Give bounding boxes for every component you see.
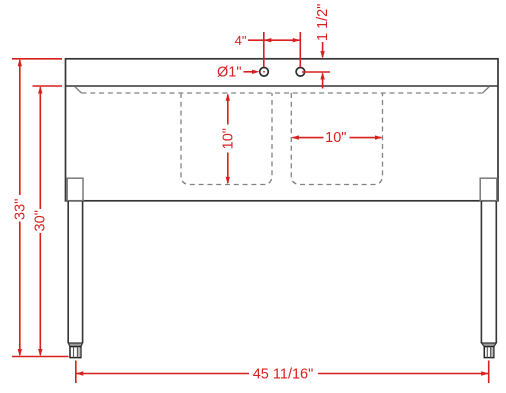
svg-text:30": 30" (33, 210, 49, 231)
dimension 30" extension line top (33, 85, 63, 87)
sink body outline (66, 59, 499, 201)
svg-text:10": 10" (325, 130, 346, 146)
dimension 30" line (38, 86, 42, 357)
left leg (68, 201, 82, 343)
rim chamfer right (483, 87, 490, 93)
right bowl 10" dimension line (291, 135, 382, 139)
left foot (70, 347, 81, 358)
faucet hole 1 (260, 68, 269, 77)
svg-text:1 1/2": 1 1/2" (315, 4, 331, 41)
bottom dimension 45 11/16" extension left (75, 361, 77, 384)
hole-center extension line (302, 71, 330, 73)
svg-text:Ø1": Ø1" (217, 64, 242, 80)
right foot (484, 347, 494, 358)
dimension 33" extension line top (12, 58, 62, 60)
left bowl (dashed) (181, 93, 272, 185)
svg-text:4": 4" (235, 33, 247, 48)
dimension 33"/30" extension line bottom (12, 356, 69, 358)
left leg gusset bracket (67, 178, 83, 201)
dimension 4" extension line left (263, 32, 265, 67)
left leg taper collar (68, 343, 82, 347)
left bowl 10" dimension line (226, 93, 230, 184)
bottom dimension 45 11/16" extension right (488, 361, 490, 384)
right leg (481, 201, 496, 343)
bottom dimension line with arrows (76, 371, 489, 375)
svg-text:10": 10" (221, 128, 237, 149)
dimension 4" line with arrows (248, 38, 300, 42)
right bowl (dashed) (291, 93, 382, 185)
backsplash rim line (66, 85, 499, 87)
faucet hole 1 center mark (263, 71, 265, 73)
dimension 1 1/2" lower arrow (320, 72, 324, 89)
rim chamfer left (75, 87, 82, 93)
svg-text:45 11/16": 45 11/16" (253, 366, 314, 382)
right leg taper collar (481, 343, 496, 347)
dimension 1 1/2" upper arrow (320, 42, 324, 59)
svg-text:33": 33" (12, 199, 28, 220)
counter interior dashed line (82, 92, 483, 94)
diameter leader arrow (244, 70, 260, 74)
faucet hole 2 (296, 68, 305, 77)
dimension 33" line (18, 59, 22, 357)
dimension 4" extension line right (299, 32, 301, 67)
right leg gusset bracket (480, 178, 497, 201)
